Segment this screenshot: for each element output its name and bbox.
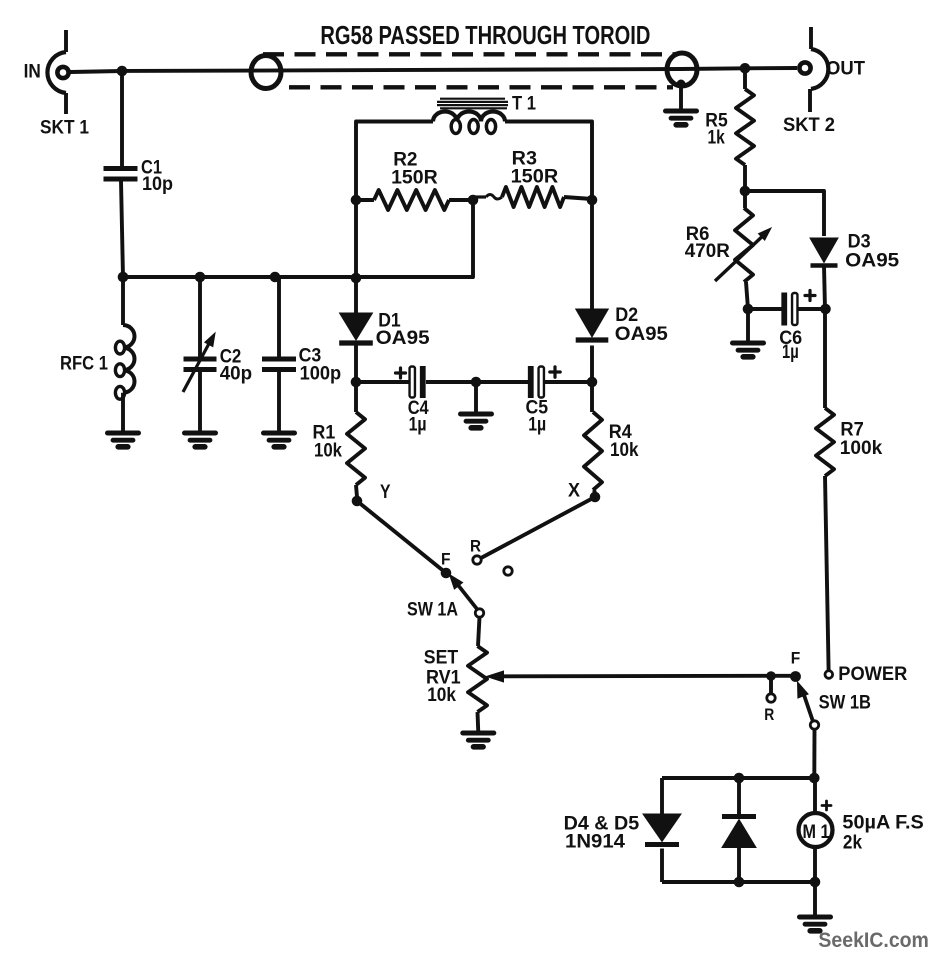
svg-text:2k: 2k — [843, 833, 862, 854]
svg-text:10k: 10k — [427, 685, 456, 706]
svg-text:M 1: M 1 — [803, 822, 830, 843]
svg-text:10k: 10k — [610, 440, 639, 461]
svg-text:50µA F.S: 50µA F.S — [842, 813, 923, 834]
svg-text:100p: 100p — [300, 364, 342, 385]
svg-text:SKT 2: SKT 2 — [783, 115, 835, 136]
svg-text:POWER: POWER — [838, 664, 907, 685]
svg-text:100k: 100k — [840, 438, 883, 459]
svg-text:X: X — [568, 481, 580, 502]
svg-text:SET: SET — [424, 648, 459, 669]
svg-text:OUT: OUT — [826, 59, 865, 80]
svg-text:SKT 1: SKT 1 — [40, 118, 89, 139]
svg-text:1N914: 1N914 — [565, 832, 625, 853]
svg-text:F: F — [791, 649, 801, 668]
svg-text:SW 1A: SW 1A — [407, 600, 458, 621]
svg-text:1µ: 1µ — [782, 342, 799, 363]
svg-text:OA95: OA95 — [615, 324, 668, 345]
svg-text:470R: 470R — [685, 241, 730, 262]
svg-text:40p: 40p — [220, 364, 252, 385]
svg-text:10p: 10p — [142, 174, 173, 195]
svg-text:T 1: T 1 — [512, 94, 536, 115]
svg-text:RG58 PASSED THROUGH TOROID: RG58 PASSED THROUGH TOROID — [320, 22, 650, 50]
svg-text:D2: D2 — [615, 305, 638, 326]
svg-text:SeekIC.com: SeekIC.com — [818, 929, 929, 952]
svg-text:SW 1B: SW 1B — [819, 693, 871, 714]
svg-text:1µ: 1µ — [409, 415, 427, 436]
svg-text:F: F — [441, 550, 451, 569]
svg-text:1k: 1k — [708, 128, 726, 149]
svg-text:IN: IN — [24, 62, 41, 83]
svg-text:150R: 150R — [511, 167, 559, 188]
svg-text:Y: Y — [380, 482, 391, 503]
svg-text:RFC 1: RFC 1 — [60, 354, 108, 375]
svg-text:OA95: OA95 — [376, 328, 430, 349]
svg-text:R: R — [764, 705, 774, 724]
svg-text:R: R — [470, 537, 481, 556]
svg-text:OA95: OA95 — [845, 251, 899, 272]
svg-text:1µ: 1µ — [528, 415, 546, 436]
svg-text:150R: 150R — [391, 168, 438, 189]
svg-text:10k: 10k — [314, 441, 342, 462]
